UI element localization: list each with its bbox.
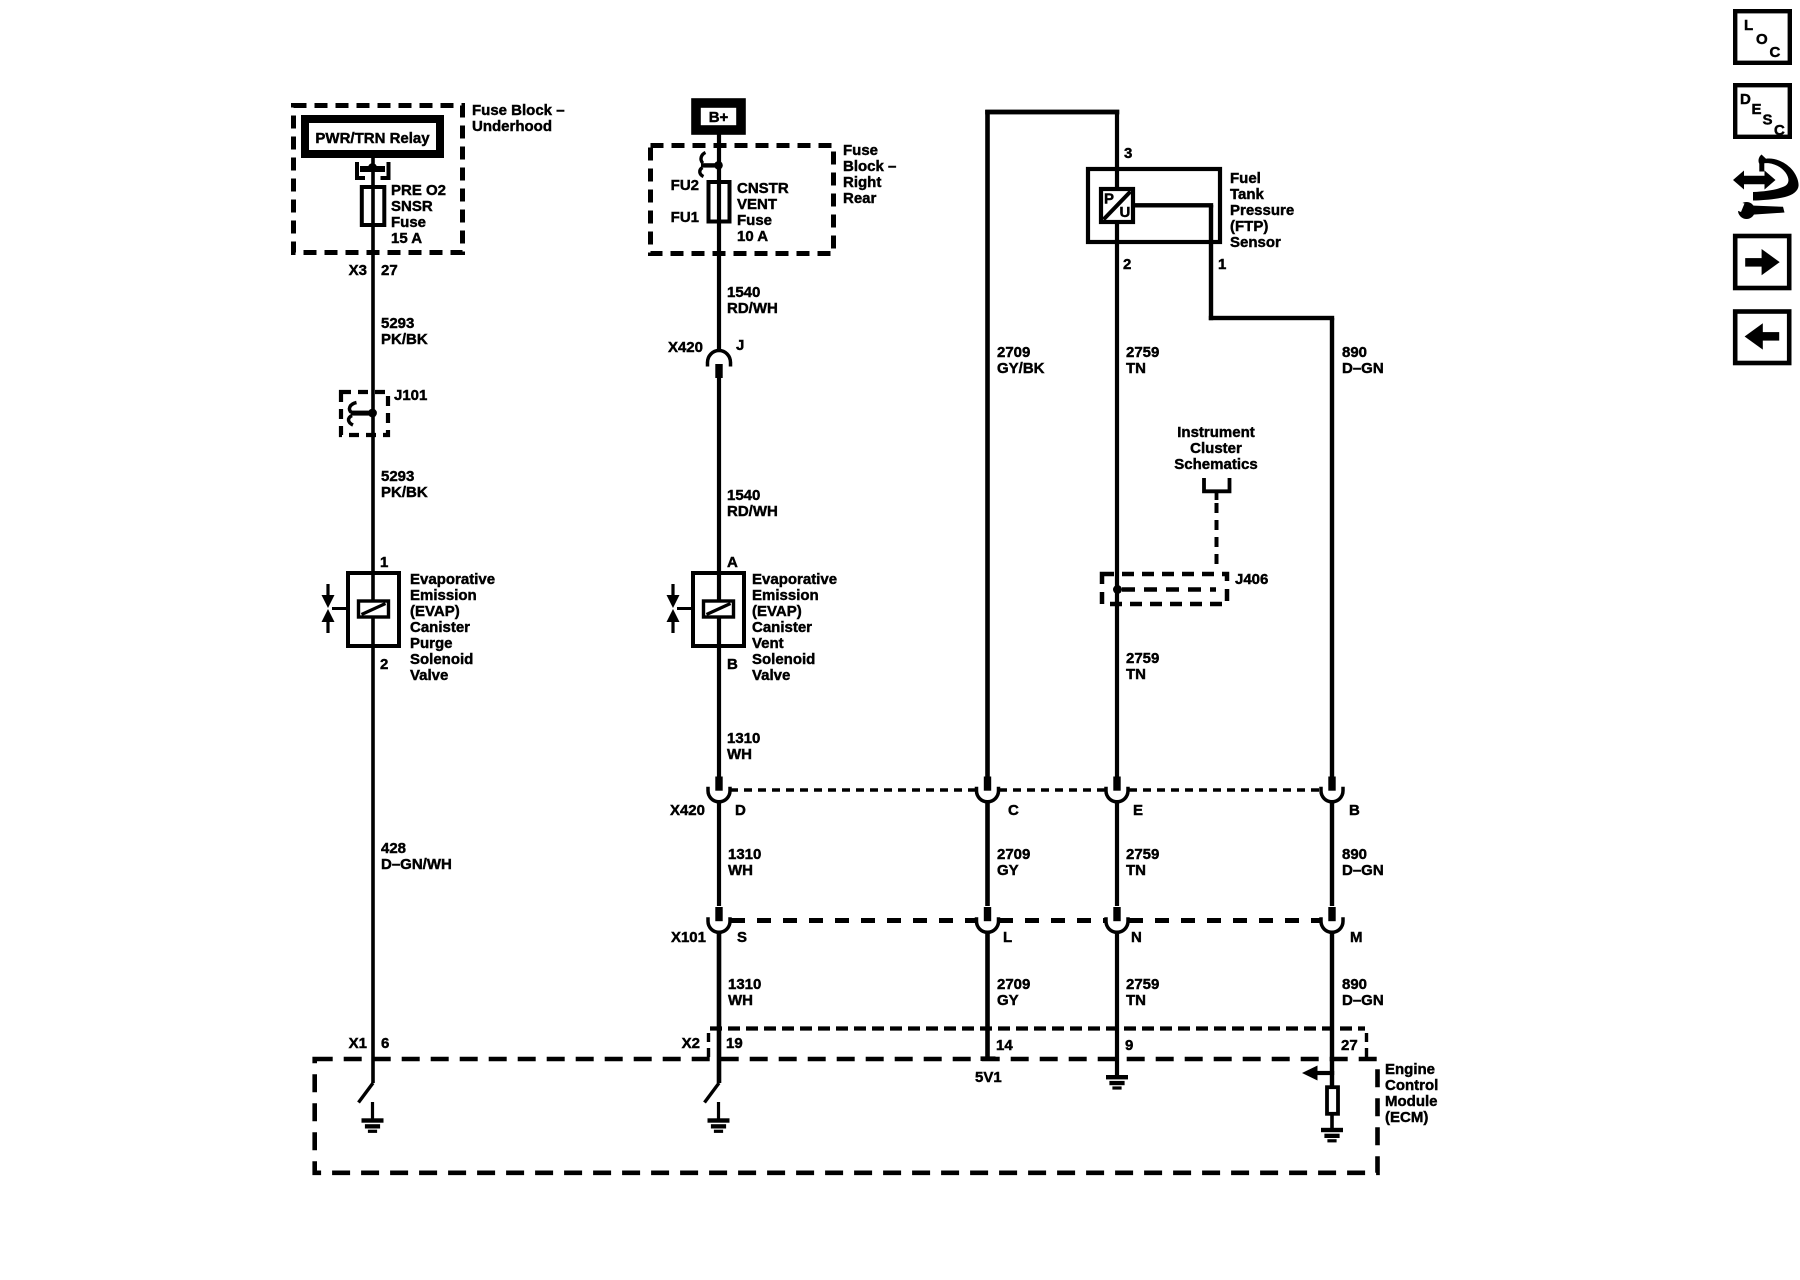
svg-text:P: P <box>1104 191 1114 208</box>
svg-text:Fuse: Fuse <box>391 214 426 231</box>
svg-text:1310: 1310 <box>728 976 761 993</box>
svg-text:Block –: Block – <box>843 158 896 175</box>
svg-text:(FTP): (FTP) <box>1230 218 1268 235</box>
svg-text:PK/BK: PK/BK <box>381 331 428 348</box>
svg-text:Valve: Valve <box>752 667 790 684</box>
svg-text:Fuel: Fuel <box>1230 170 1261 187</box>
svg-text:O: O <box>1756 31 1768 48</box>
svg-text:5V1: 5V1 <box>975 1069 1002 1086</box>
svg-text:Module: Module <box>1385 1093 1438 1110</box>
svg-text:PWR/TRN Relay: PWR/TRN Relay <box>315 130 430 147</box>
svg-text:3: 3 <box>1124 145 1132 162</box>
svg-text:1: 1 <box>380 554 388 571</box>
svg-text:E: E <box>1133 802 1143 819</box>
svg-text:X3: X3 <box>349 262 367 279</box>
svg-text:(ECM): (ECM) <box>1385 1109 1428 1126</box>
svg-text:Canister: Canister <box>410 619 470 636</box>
svg-text:2709: 2709 <box>997 344 1030 361</box>
svg-text:Emission: Emission <box>752 587 819 604</box>
svg-text:GY/BK: GY/BK <box>997 360 1045 377</box>
svg-text:D–GN/WH: D–GN/WH <box>381 856 452 873</box>
svg-text:2759: 2759 <box>1126 976 1159 993</box>
svg-text:2759: 2759 <box>1126 650 1159 667</box>
svg-text:Right: Right <box>843 174 881 191</box>
svg-text:Engine: Engine <box>1385 1061 1435 1078</box>
svg-text:WH: WH <box>728 992 753 1009</box>
svg-text:E: E <box>1752 101 1762 118</box>
svg-text:Fuse: Fuse <box>737 212 772 229</box>
svg-text:1540: 1540 <box>727 284 760 301</box>
svg-text:S: S <box>1763 112 1773 129</box>
svg-text:Rear: Rear <box>843 190 877 207</box>
svg-text:Control: Control <box>1385 1077 1438 1094</box>
svg-text:C: C <box>1774 122 1785 139</box>
svg-text:Instrument: Instrument <box>1177 424 1255 441</box>
svg-text:2709: 2709 <box>997 976 1030 993</box>
svg-text:2: 2 <box>380 656 388 673</box>
svg-text:5293: 5293 <box>381 315 414 332</box>
svg-text:B+: B+ <box>709 109 729 126</box>
svg-text:27: 27 <box>1341 1037 1358 1054</box>
svg-text:Emission: Emission <box>410 587 477 604</box>
svg-text:(EVAP): (EVAP) <box>752 603 802 620</box>
svg-text:Schematics: Schematics <box>1174 456 1257 473</box>
svg-text:TN: TN <box>1126 666 1146 683</box>
svg-text:C: C <box>1770 44 1781 61</box>
svg-text:890: 890 <box>1342 846 1367 863</box>
svg-text:Valve: Valve <box>410 667 448 684</box>
svg-text:S: S <box>737 929 747 946</box>
svg-text:Solenoid: Solenoid <box>410 651 473 668</box>
svg-text:B: B <box>727 656 738 673</box>
svg-text:J101: J101 <box>394 387 427 404</box>
svg-text:X101: X101 <box>671 929 706 946</box>
svg-text:C: C <box>1008 802 1019 819</box>
svg-text:N: N <box>1131 929 1142 946</box>
svg-text:D: D <box>735 802 746 819</box>
svg-text:A: A <box>727 554 738 571</box>
svg-text:L: L <box>1003 929 1012 946</box>
svg-text:GY: GY <box>997 992 1019 1009</box>
svg-text:L: L <box>1744 17 1753 34</box>
svg-text:2709: 2709 <box>997 846 1030 863</box>
svg-text:10 A: 10 A <box>737 228 768 245</box>
svg-text:X420: X420 <box>670 802 705 819</box>
svg-text:Evaporative: Evaporative <box>752 571 837 588</box>
svg-text:J: J <box>736 337 744 354</box>
svg-text:1: 1 <box>1218 256 1226 273</box>
svg-text:RD/WH: RD/WH <box>727 503 778 520</box>
svg-text:1310: 1310 <box>727 730 760 747</box>
svg-text:Fuse Block –: Fuse Block – <box>472 102 565 119</box>
svg-text:X2: X2 <box>682 1035 700 1052</box>
svg-text:2759: 2759 <box>1126 846 1159 863</box>
svg-text:Fuse: Fuse <box>843 142 878 159</box>
svg-text:1310: 1310 <box>728 846 761 863</box>
svg-text:19: 19 <box>726 1035 743 1052</box>
svg-text:SNSR: SNSR <box>391 198 433 215</box>
svg-text:Cluster: Cluster <box>1190 440 1242 457</box>
svg-text:Underhood: Underhood <box>472 118 552 135</box>
svg-text:D–GN: D–GN <box>1342 862 1384 879</box>
svg-text:GY: GY <box>997 862 1019 879</box>
svg-text:WH: WH <box>727 746 752 763</box>
svg-text:VENT: VENT <box>737 196 777 213</box>
svg-text:TN: TN <box>1126 992 1146 1009</box>
svg-text:Tank: Tank <box>1230 186 1265 203</box>
svg-text:15 A: 15 A <box>391 230 422 247</box>
svg-text:WH: WH <box>728 862 753 879</box>
svg-text:TN: TN <box>1126 360 1146 377</box>
svg-text:D–GN: D–GN <box>1342 992 1384 1009</box>
svg-text:FU1: FU1 <box>671 209 699 226</box>
svg-text:2: 2 <box>1123 256 1131 273</box>
svg-text:5293: 5293 <box>381 468 414 485</box>
svg-text:B: B <box>1349 802 1360 819</box>
svg-text:CNSTR: CNSTR <box>737 180 789 197</box>
svg-text:6: 6 <box>381 1035 389 1052</box>
svg-text:X420: X420 <box>668 339 703 356</box>
svg-text:RD/WH: RD/WH <box>727 300 778 317</box>
svg-text:PRE O2: PRE O2 <box>391 182 446 199</box>
svg-text:Solenoid: Solenoid <box>752 651 815 668</box>
svg-text:FU2: FU2 <box>671 177 699 194</box>
svg-text:428: 428 <box>381 840 406 857</box>
svg-text:27: 27 <box>381 262 398 279</box>
svg-text:890: 890 <box>1342 344 1367 361</box>
svg-text:M: M <box>1350 929 1363 946</box>
svg-text:Vent: Vent <box>752 635 784 652</box>
svg-text:Canister: Canister <box>752 619 812 636</box>
svg-text:2759: 2759 <box>1126 344 1159 361</box>
svg-text:Sensor: Sensor <box>1230 234 1281 251</box>
svg-text:PK/BK: PK/BK <box>381 484 428 501</box>
svg-text:D: D <box>1740 91 1751 108</box>
svg-text:890: 890 <box>1342 976 1367 993</box>
svg-text:9: 9 <box>1125 1037 1133 1054</box>
svg-text:X1: X1 <box>349 1035 367 1052</box>
svg-text:D–GN: D–GN <box>1342 360 1384 377</box>
svg-text:1540: 1540 <box>727 487 760 504</box>
svg-text:TN: TN <box>1126 862 1146 879</box>
svg-text:J406: J406 <box>1235 571 1268 588</box>
svg-text:Evaporative: Evaporative <box>410 571 495 588</box>
svg-text:(EVAP): (EVAP) <box>410 603 460 620</box>
svg-text:Pressure: Pressure <box>1230 202 1294 219</box>
svg-text:14: 14 <box>996 1037 1013 1054</box>
svg-text:U: U <box>1120 204 1131 221</box>
svg-text:Purge: Purge <box>410 635 453 652</box>
